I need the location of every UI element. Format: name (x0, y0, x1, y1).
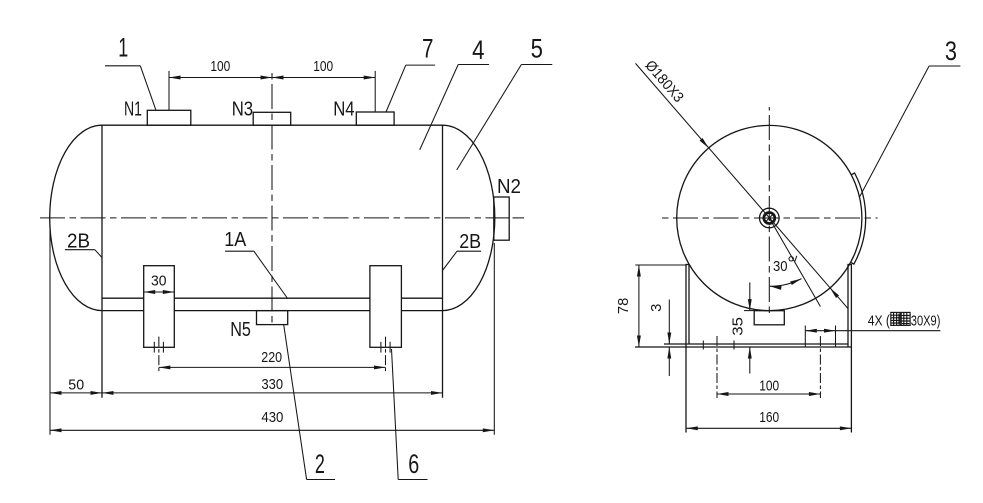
right weld seam line (extended as ext. line) (442, 125, 444, 398)
left weld seam line (extended as ext. line for dims 330/430) (101, 125, 103, 398)
nozzle N1 (147, 110, 191, 125)
dim 100/100 extension lines (168, 71, 170, 110)
30 deg angle arc with arrows (770, 279, 802, 287)
svg-text:2: 2 (315, 449, 325, 479)
svg-text:30X9): 30X9) (911, 312, 941, 329)
left elliptical head (50, 125, 102, 310)
vertical centerline through N3/N5 (271, 70, 273, 327)
svg-text:N4: N4 (333, 98, 354, 120)
horizontal centerline (40, 217, 494, 219)
end view nozzle N5 (754, 311, 784, 325)
center target symbol cross (766, 215, 772, 221)
dim 30 on left saddle (144, 291, 175, 293)
svg-text:4: 4 (472, 35, 484, 65)
left bolt slot edges (702, 341, 704, 350)
svg-text:30: 30 (151, 274, 167, 290)
svg-text:35: 35 (730, 317, 746, 336)
center target symbol outer circle (760, 208, 780, 228)
svg-text:7: 7 (422, 33, 434, 63)
svg-text:78: 78 (616, 298, 632, 314)
svg-text:1: 1 (118, 32, 128, 62)
svg-text:N1: N1 (124, 98, 142, 120)
dim 220 between saddle bolt centers (159, 366, 386, 368)
dim 430 (50, 429, 494, 431)
dim 330 (102, 392, 443, 394)
svg-text:30: 30 (773, 259, 788, 275)
svg-text:N3: N3 (232, 98, 253, 120)
saddle left side plate (685, 265, 687, 433)
centerline over N2 (494, 217, 509, 219)
svg-text:N5: N5 (230, 319, 251, 341)
saddle right side plate (847, 265, 849, 348)
svg-text:6: 6 (408, 449, 419, 479)
svg-text:50: 50 (68, 378, 84, 394)
right elliptical head (443, 125, 495, 310)
dim 160 (saddle width) (686, 427, 851, 429)
left bolt slot centerline extended (716, 336, 718, 398)
nozzle N2 (494, 197, 509, 240)
head weld band arc (item 3) (851, 173, 866, 264)
svg-text:430: 430 (261, 410, 283, 426)
svg-text:100: 100 (210, 59, 230, 75)
tank shell bottom line (102, 310, 144, 312)
30 deg line from center (769, 218, 820, 307)
right saddle bolt slot centerline (385, 337, 387, 372)
left saddle support (144, 266, 175, 348)
end view horizontal centerline (661, 217, 878, 219)
right bolt slot edges (ext lines for 4X note) (804, 326, 806, 348)
right saddle support (370, 266, 402, 348)
ext line at head right tip x=494.3 (493, 243, 495, 435)
dim 50 (50, 392, 102, 394)
svg-text:160: 160 (759, 410, 779, 426)
svg-text:220: 220 (261, 350, 282, 366)
ext line at head left tip x=50 (49, 225, 51, 435)
dia 180x3 leader line (636, 63, 848, 308)
svg-text:3: 3 (945, 36, 957, 66)
saddle base plate top (664, 343, 848, 345)
dim 100 (bolt centers) (717, 393, 820, 395)
nozzle N5 (257, 311, 288, 325)
right saddle bolt slot edges (380, 342, 382, 353)
end view shell circle (677, 125, 862, 310)
svg-text:4X (: 4X ( (868, 312, 890, 329)
tank shell top line (102, 124, 443, 126)
saddle base plate bottom (635, 346, 851, 348)
right bolt slot centerline extended (819, 336, 821, 398)
svg-text:5: 5 (531, 33, 543, 63)
end view vertical centerline (768, 107, 770, 313)
dim 4X slot 30x9 note (805, 330, 835, 332)
dim 35 (shell bottom to base) (749, 282, 751, 310)
nozzle N3 (253, 112, 291, 125)
runner bar top line (102, 297, 144, 299)
svg-text:100: 100 (759, 378, 779, 394)
svg-text:1A: 1A (224, 229, 247, 251)
dim 3 (base plate thickness) (668, 300, 670, 345)
left saddle bolt slot edges (153, 342, 155, 353)
nozzle N4 (356, 112, 394, 125)
left saddle bolt slot centerline (158, 337, 160, 372)
svg-text:330: 330 (262, 377, 284, 393)
dim line 100/100 (169, 77, 375, 79)
svg-text:N2: N2 (497, 176, 521, 198)
dim 78 (saddle height) (635, 264, 686, 266)
svg-text:100: 100 (313, 59, 333, 75)
svg-text:3: 3 (649, 304, 665, 312)
center target symbol inner ring (764, 213, 775, 224)
svg-text:2B: 2B (459, 231, 481, 253)
